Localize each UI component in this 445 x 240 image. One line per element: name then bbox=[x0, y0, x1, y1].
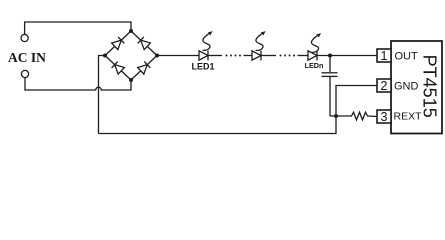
wire bridge right vertex to LED1 anode bbox=[157, 55, 199, 57]
wire AC top to bridge top vertex bbox=[25, 22, 131, 34]
LED1 light arrow bbox=[203, 31, 213, 50]
wire bridge left vertex down to ground rail bbox=[99, 56, 106, 134]
svg-text:PT4515: PT4515 bbox=[420, 55, 440, 118]
node dot ground junction bbox=[334, 114, 338, 118]
diode D2 (right vertex to top vertex) bbox=[138, 37, 151, 50]
IC U1 PT4515 body bbox=[391, 41, 442, 134]
bridge diamond sides bbox=[105, 31, 157, 80]
node dot bridge top bbox=[129, 29, 133, 33]
ground rail wire bbox=[99, 116, 337, 134]
node dot bridge right bbox=[155, 54, 159, 58]
LED LED2 (middle, unlabeled) bbox=[252, 51, 261, 61]
wire LED1 to dotted gap bbox=[208, 55, 222, 57]
wire AC bottom to bridge bottom vertex (with hop over vertical) bbox=[25, 78, 131, 90]
LED LED1 bbox=[199, 51, 208, 61]
diode D4 (bottom vertex to right vertex) bbox=[138, 61, 151, 74]
svg-text:LED1: LED1 bbox=[191, 62, 214, 72]
pin 2 box bbox=[377, 79, 391, 92]
svg-text:2: 2 bbox=[381, 79, 388, 93]
svg-text:GND: GND bbox=[394, 80, 419, 92]
AC terminal bottom bbox=[21, 70, 28, 77]
wire pin 2 GND down to ground node bbox=[336, 86, 377, 117]
diode D3 (bottom vertex to left vertex) bbox=[112, 61, 125, 74]
LED LEDn bbox=[308, 51, 317, 61]
wire capacitor bottom to ground node bbox=[330, 115, 336, 117]
diode D1 (left vertex to top vertex) bbox=[112, 37, 125, 50]
AC terminal top bbox=[21, 34, 28, 41]
resistor R1 (REXT) bbox=[336, 112, 377, 120]
svg-text:3: 3 bbox=[381, 110, 388, 124]
svg-text:1: 1 bbox=[381, 49, 388, 63]
wire LED2 to dotted gap bbox=[261, 55, 276, 57]
svg-text:REXT: REXT bbox=[394, 110, 423, 122]
capacitor C1 bbox=[322, 56, 338, 117]
wire into LED2 bbox=[244, 55, 253, 57]
dotted wire segment 2 bbox=[280, 55, 296, 57]
wire LEDn cathode to pin 1 OUT bbox=[317, 55, 377, 57]
svg-text:AC IN: AC IN bbox=[8, 50, 46, 65]
svg-text:LEDn: LEDn bbox=[305, 61, 324, 70]
wire into LEDn bbox=[298, 55, 309, 57]
svg-text:OUT: OUT bbox=[395, 50, 419, 62]
LEDn light arrow bbox=[311, 33, 321, 52]
node dot LED/cap junction bbox=[328, 54, 332, 58]
dotted wire segment 1 bbox=[226, 55, 242, 57]
pin 1 box bbox=[377, 49, 391, 62]
node dot bridge left bbox=[103, 54, 107, 58]
LED2 light arrow bbox=[256, 31, 266, 50]
node dot bridge bottom bbox=[129, 78, 133, 82]
pin 3 box bbox=[377, 110, 391, 123]
